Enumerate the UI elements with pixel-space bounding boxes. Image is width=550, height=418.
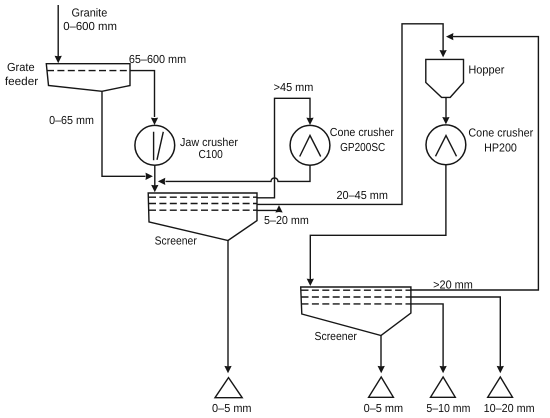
svg-text:0–5 mm: 0–5 mm bbox=[212, 402, 252, 415]
svg-text:10–20 mm: 10–20 mm bbox=[484, 402, 535, 415]
svg-text:0–65 mm: 0–65 mm bbox=[49, 114, 94, 127]
svg-text:Hopper: Hopper bbox=[468, 64, 504, 77]
svg-text:>45 mm: >45 mm bbox=[274, 81, 314, 94]
svg-text:65–600 mm: 65–600 mm bbox=[129, 53, 186, 66]
svg-text:Jaw crusher: Jaw crusher bbox=[180, 136, 238, 149]
svg-text:5–10 mm: 5–10 mm bbox=[426, 402, 470, 415]
svg-text:Granite: Granite bbox=[72, 6, 108, 19]
svg-text:C100: C100 bbox=[199, 148, 223, 161]
svg-text:Grate: Grate bbox=[7, 61, 35, 74]
svg-text:>20 mm: >20 mm bbox=[433, 278, 473, 291]
svg-text:20–45 mm: 20–45 mm bbox=[337, 189, 388, 202]
svg-text:HP200: HP200 bbox=[484, 141, 517, 154]
svg-text:Screener: Screener bbox=[155, 235, 197, 248]
svg-text:0–5 mm: 0–5 mm bbox=[364, 402, 404, 415]
svg-text:0–600 mm: 0–600 mm bbox=[63, 20, 117, 33]
svg-text:Screener: Screener bbox=[315, 330, 358, 343]
svg-text:Cone crusher: Cone crusher bbox=[468, 126, 533, 139]
svg-text:Cone crusher: Cone crusher bbox=[330, 126, 394, 139]
svg-text:GP200SC: GP200SC bbox=[340, 141, 385, 154]
svg-text:5–20 mm: 5–20 mm bbox=[264, 214, 309, 227]
svg-text:feeder: feeder bbox=[5, 75, 38, 88]
